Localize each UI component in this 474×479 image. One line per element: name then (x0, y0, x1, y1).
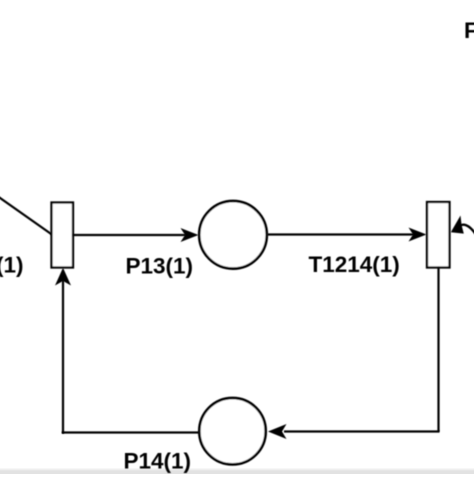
place P14 (circle) (199, 398, 265, 464)
svg-text:(1): (1) (0, 253, 24, 278)
transition T12 (left vertical bar) (52, 203, 74, 268)
wire from right edge into T1214 (458, 225, 474, 235)
gray band at bottom (0, 469, 474, 475)
place P13 (circle) (199, 201, 267, 269)
arrowhead up into T-left (55, 268, 71, 286)
arrowhead into right side of T1214 (451, 216, 464, 234)
wire T1214 down (437, 268, 439, 432)
wire P14 to left (62, 431, 199, 433)
transition T1214 (right vertical bar) (427, 202, 450, 268)
arrowhead into T1214 (409, 228, 427, 242)
arrowhead into P14 (268, 424, 287, 439)
wire diagonal into transition T-left (0, 197, 54, 237)
wire P13 to T1214 (268, 233, 415, 235)
wire T-left to P13 (73, 234, 186, 236)
svg-text:P13(1): P13(1) (126, 254, 194, 279)
arrowhead into P13 (181, 228, 199, 242)
wire bottom horizontal toward P14 (284, 430, 440, 432)
svg-text:T1214(1): T1214(1) (309, 252, 400, 277)
svg-text:P14(1): P14(1) (124, 449, 192, 474)
wire left vertical up to T-left (62, 280, 64, 434)
svg-text:Figure: Figure (464, 18, 474, 43)
